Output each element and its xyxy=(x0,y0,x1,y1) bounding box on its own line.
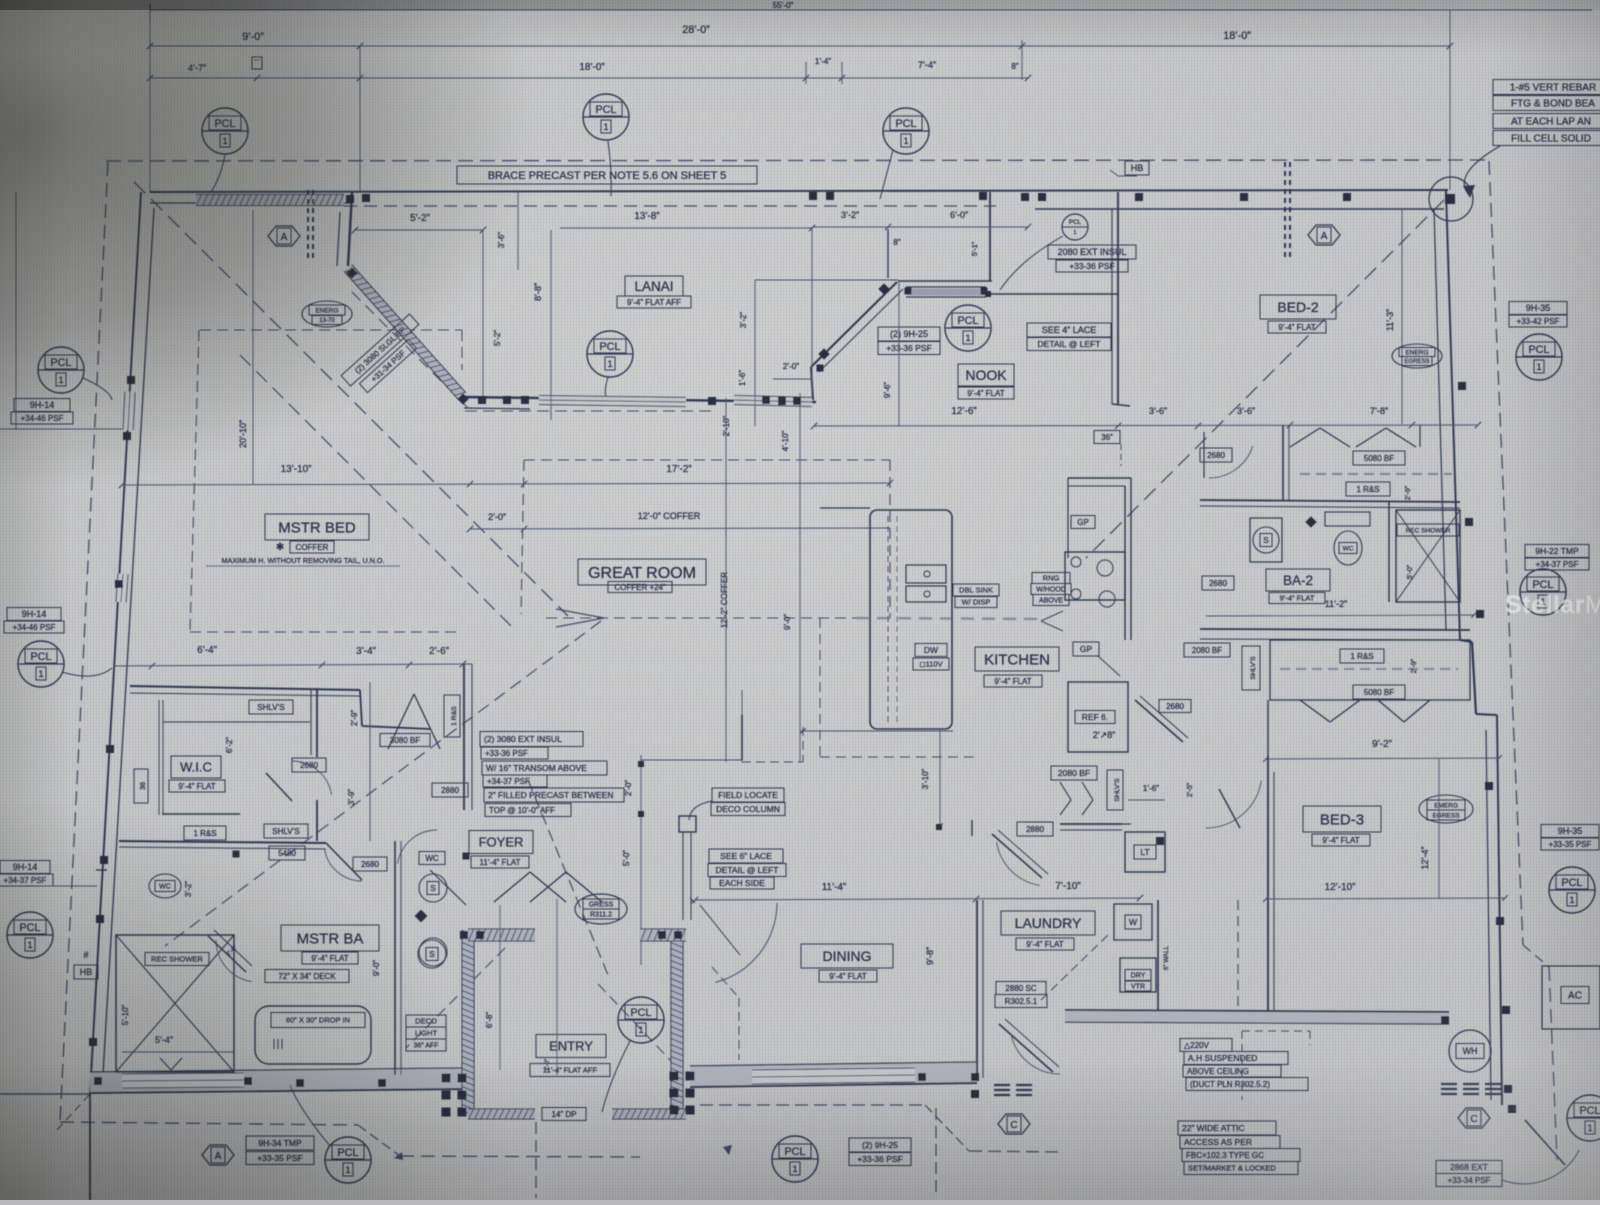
ba2 wall between xyxy=(1388,502,1390,602)
nook wall to top xyxy=(989,192,991,281)
lanai wall vertical stub xyxy=(348,192,352,266)
RNG HOOD label xyxy=(1032,573,1070,584)
mstr ba left walls xyxy=(96,869,107,871)
washer dryer xyxy=(1114,904,1152,940)
bed3 door xyxy=(1206,781,1261,828)
SHLVS label wic top xyxy=(249,700,293,714)
2680 label ba2 xyxy=(1200,448,1232,462)
9H-35 note right xyxy=(1509,302,1567,315)
wic top wall xyxy=(130,686,360,690)
wic 36 rot box xyxy=(134,769,148,803)
rec shower mstr xyxy=(116,935,234,1072)
shower chevron drain xyxy=(160,1058,171,1070)
2080 BF label hall xyxy=(1184,643,1230,657)
column squares left wall xyxy=(127,376,135,384)
wc compartment wall xyxy=(394,841,396,1075)
left dim 20-10 xyxy=(0,428,122,430)
PCL balloon right lower partial xyxy=(1549,867,1595,913)
foyer entry chevrons xyxy=(494,872,530,902)
SHLVS rotated pantry xyxy=(1107,770,1123,810)
wic right wall and door xyxy=(362,726,430,729)
2080 BF label pantry xyxy=(1051,766,1097,780)
PCL balloon left1 xyxy=(38,347,84,393)
misc squares center xyxy=(233,851,240,858)
nook dim verticals xyxy=(754,280,756,426)
kitchen soffit dashed xyxy=(819,618,821,757)
exterior wall right inner lower xyxy=(1486,730,1491,1100)
BA-2 label xyxy=(1266,569,1330,591)
PCL balloon right mid xyxy=(1520,569,1566,615)
closet rod dashed bed3 xyxy=(1280,668,1458,670)
column squares top wall xyxy=(346,195,354,203)
bed2 ba2 dim line xyxy=(1206,424,1478,426)
closet 3080 chevrons xyxy=(388,694,414,749)
nook lintel thick xyxy=(906,289,986,296)
bed2 rot dim 11-3 xyxy=(1401,210,1403,424)
hip dashed diagonal parallel xyxy=(240,355,515,630)
dimension line 28ft and 18ft xyxy=(150,45,1450,47)
dashed under lanai wall xyxy=(465,410,712,412)
entry porch top wall left xyxy=(468,929,535,941)
BED-2 label xyxy=(1260,295,1336,319)
ba2 toilet xyxy=(1250,518,1282,562)
island dashed overhang xyxy=(887,516,889,722)
column squares lanai wall xyxy=(478,396,486,404)
deco column entry xyxy=(679,816,696,832)
exterior wall right upper xyxy=(1446,191,1460,640)
entry column dim xyxy=(640,755,642,965)
dining laundry wall xyxy=(976,900,978,1078)
DINING label xyxy=(801,944,893,968)
bed3 dashed vert xyxy=(1237,900,1239,1008)
AC pad xyxy=(1542,966,1600,1029)
pantry chevron shelves xyxy=(1060,782,1071,800)
roof overhang dashed bottom right xyxy=(700,1104,925,1106)
nook beam top xyxy=(898,280,992,282)
kitchen cooktop xyxy=(1065,552,1125,600)
closet rod dashed ba2 xyxy=(1300,473,1452,475)
PCL balloon bottom-left xyxy=(325,1137,371,1183)
dim extension verticals top xyxy=(149,10,151,192)
ba2 vanity sink xyxy=(1325,512,1370,526)
bed3 closet bifolds xyxy=(1300,700,1330,722)
great room coffer dashed box xyxy=(524,459,890,461)
nook 8in dim xyxy=(887,229,889,278)
roof overhang dashed upper second xyxy=(344,205,996,207)
2868 EXT note xyxy=(1436,1161,1502,1174)
ENERG oval right wall xyxy=(1392,344,1442,368)
valley dashed foyer long xyxy=(165,621,601,946)
ba2 bottom wall xyxy=(1200,629,1470,630)
DBL SINK label xyxy=(953,584,999,596)
overhang corner diag bottom-left xyxy=(57,1095,89,1130)
MSTR BED label xyxy=(265,514,369,540)
exterior wall bottom band right xyxy=(690,1062,977,1087)
dim 13-10 17-2 xyxy=(122,483,890,485)
vert dim x812 xyxy=(811,228,813,395)
hip dashed diagonal from NE corner xyxy=(1086,200,1444,558)
PCL balloon left2 xyxy=(18,641,64,687)
GREAT ROOM label xyxy=(578,559,706,585)
entry 6-8 dim xyxy=(499,905,501,1070)
PCL balloon entry xyxy=(618,997,664,1043)
patio door arc xyxy=(1501,1150,1579,1184)
entry porch bottom wall xyxy=(468,1109,535,1119)
9H-35 note right lower xyxy=(1541,825,1599,838)
LANAI label xyxy=(625,276,683,296)
hex A top-right xyxy=(1308,225,1340,245)
kitchen island sink basins xyxy=(906,565,946,583)
column squares right wall xyxy=(1458,382,1466,390)
laundry door leaf xyxy=(999,1024,1053,1072)
porch hip dashed left xyxy=(406,948,505,1048)
exterior wall left inner face xyxy=(103,208,154,1074)
2880 SC note xyxy=(996,982,1046,995)
ENTRY label xyxy=(536,1035,606,1058)
vignette edges xyxy=(0,0,70,1200)
S switch circle entry xyxy=(418,940,446,968)
laundry bottom wall band xyxy=(1065,1010,1449,1024)
nook angled wall xyxy=(811,282,897,367)
WIC label xyxy=(171,756,221,778)
dining hall wall xyxy=(741,715,743,760)
hall wall stubs xyxy=(971,820,973,836)
wc fixtures xyxy=(419,852,445,865)
2680 label mstr ba door xyxy=(353,857,387,871)
hall wall vertical xyxy=(463,664,465,810)
GRESS oval xyxy=(575,894,627,924)
NOOK label xyxy=(958,364,1014,386)
nook 2-0 dim xyxy=(773,378,812,380)
lanai dim 13-8 line xyxy=(560,227,812,229)
nook dim 12-6 xyxy=(814,425,1478,426)
WH circle xyxy=(1449,1030,1491,1072)
small box symbol on dim xyxy=(252,57,262,69)
exterior wall top xyxy=(150,190,1448,192)
ba2 mid wall xyxy=(1200,500,1460,502)
break marks center xyxy=(994,1084,1010,1086)
kitchen GP box1 xyxy=(1071,516,1095,529)
dim 2-0 12-0 coffer xyxy=(470,528,890,529)
SEE 6 LACE note xyxy=(709,849,783,863)
wic bottom wall xyxy=(162,813,240,815)
bed3 closet box xyxy=(1270,640,1470,700)
lanai slider 2 xyxy=(734,400,812,402)
kitchen angled door xyxy=(1135,700,1183,742)
break marks right xyxy=(1441,1083,1457,1085)
2680 wic door label xyxy=(292,758,326,772)
lanai angled slider label rotated xyxy=(341,314,419,386)
exterior wall right jog xyxy=(1460,640,1472,642)
wc oval left xyxy=(149,874,181,898)
great room vert dims xyxy=(725,398,727,762)
MSTR BA label xyxy=(281,925,379,951)
column squares bottom wall xyxy=(94,1077,102,1085)
5080 BF label bed3 xyxy=(1353,685,1405,699)
walkway dashed edges xyxy=(535,1122,537,1198)
PCL balloon top-right xyxy=(883,108,929,154)
ba2 closet walls xyxy=(1282,425,1284,500)
beam line lanai xyxy=(755,279,898,281)
HB label top xyxy=(1125,161,1149,175)
hex A entry xyxy=(202,1145,234,1165)
arrow marks on bottom dashed xyxy=(394,1152,403,1160)
exterior wall right inner upper xyxy=(1434,209,1446,630)
wic shelves line xyxy=(158,700,160,815)
9-2 dim xyxy=(1266,758,1499,759)
hex C right xyxy=(1458,1108,1490,1128)
corner detail circle xyxy=(1429,177,1473,221)
PCL balloon bottom center xyxy=(772,1136,818,1182)
bed2 left wall xyxy=(1117,192,1119,404)
entry porch right wall hatched xyxy=(671,930,683,1116)
2680 door label kitchen xyxy=(1159,700,1191,713)
porch column squares left xyxy=(442,1074,451,1083)
hex A top-left xyxy=(268,226,300,246)
kitchen pantry walls xyxy=(1068,477,1131,479)
exterior wall left slanted xyxy=(90,192,141,1093)
mstr bed coffer dashed box xyxy=(200,329,462,331)
dim line y730 xyxy=(800,730,953,732)
corner column square NE xyxy=(1445,194,1455,204)
exterior wall right lower xyxy=(1497,715,1502,1105)
FIELD LOCATE note xyxy=(712,788,784,802)
lanai slider 3-3080 xyxy=(539,400,686,402)
porch corner squares xyxy=(460,931,468,939)
hall door arcs xyxy=(398,830,438,864)
entry 1-0 dims xyxy=(556,899,558,1075)
roof overhang dashed bottom left xyxy=(60,1122,358,1125)
ba2 closet bifolds xyxy=(1290,428,1320,447)
dining window bottom xyxy=(752,1075,915,1077)
14 DP label xyxy=(542,1108,586,1121)
KITCHEN label xyxy=(975,647,1059,671)
diamond squares angled walls xyxy=(346,267,357,278)
coffer chevron right end xyxy=(1041,611,1063,621)
2680 label ba2 door2 xyxy=(1202,576,1234,590)
BRACE PRECAST note xyxy=(457,166,757,184)
shower door diag xyxy=(208,936,246,972)
2080 EXT INSUL note xyxy=(1048,245,1136,259)
coffer arrow chevron xyxy=(556,609,604,618)
9H-34 note bottom xyxy=(246,1136,314,1150)
kitchen dim 3-10 vertical xyxy=(939,730,941,830)
PCL balloon nook xyxy=(945,305,991,351)
kitchen island xyxy=(870,510,952,729)
fridge xyxy=(1068,682,1128,752)
dim 20-10 vertical xyxy=(252,210,254,485)
LT box xyxy=(1125,832,1165,872)
PCL balloon 1 top-left xyxy=(202,108,248,154)
PCL balloon lanai xyxy=(587,331,633,377)
dim 1-6 kitchen xyxy=(1128,799,1165,801)
2880 label foyer xyxy=(432,783,468,797)
EMERG oval bed3 xyxy=(1419,795,1473,823)
mstr bed window left wall xyxy=(128,392,130,430)
DECO LIGHT note xyxy=(406,1015,446,1027)
porch valley dashed to dining xyxy=(712,967,739,998)
transom notes stack xyxy=(480,732,583,747)
dim 11-4 7-10 xyxy=(695,898,1140,900)
lanai angled slider wall xyxy=(348,268,462,396)
PCL small circle kitchen wall xyxy=(1062,214,1088,240)
ba2 rec shower xyxy=(1396,510,1460,602)
9H-14 note left3 xyxy=(0,861,50,874)
AH suspended note xyxy=(1180,1039,1232,1052)
1 RS label ba2 xyxy=(1346,482,1390,496)
roof overhang dashed top xyxy=(106,160,1489,161)
hip dashed diagonal from NW corner xyxy=(134,182,568,616)
9H-25 note nook xyxy=(878,327,940,341)
exterior wall top inner face right xyxy=(1035,208,1444,210)
2880 door label xyxy=(1017,822,1053,836)
precast joint dotted column B xyxy=(1284,162,1286,167)
dimension line 4-7 18-0 7-4 xyxy=(150,77,1028,79)
FOYER label xyxy=(469,831,533,854)
9H-22 note right xyxy=(1525,545,1589,558)
laundry right wall xyxy=(1157,900,1159,1010)
PCL balloon right upper xyxy=(1516,334,1562,380)
entry porch top wall right xyxy=(640,929,686,941)
ah dashed outline xyxy=(1242,1030,1310,1032)
exterior wall bottom band left xyxy=(90,1068,462,1093)
DW label xyxy=(915,644,947,657)
SHLVS rot bed3 xyxy=(1242,646,1260,690)
ba2 door arc xyxy=(1209,446,1253,478)
hall angled door xyxy=(992,834,1042,878)
bed2 dashed door gap xyxy=(1120,444,1122,466)
laundry top wall xyxy=(1060,823,1122,825)
9H-14 note left1 xyxy=(14,399,70,412)
second window left wall xyxy=(121,574,123,602)
PCL balloon bottom right partial xyxy=(1567,1095,1600,1141)
tub xyxy=(255,1006,371,1064)
porch column squares right xyxy=(670,1072,679,1081)
laundry dashed door xyxy=(1041,935,1108,1000)
11-2 dim xyxy=(1206,615,1474,616)
valley dashed foyer steep xyxy=(528,780,608,975)
attic access note xyxy=(1178,1121,1276,1135)
hex C bottom center xyxy=(998,1114,1030,1134)
9H-14 note left2 xyxy=(7,608,61,621)
5480 label xyxy=(269,846,305,860)
lanai dim 5-2 xyxy=(355,229,483,231)
kitchen counter edge top xyxy=(820,507,870,509)
lanai bottom wall xyxy=(464,397,816,402)
wic right wall xyxy=(316,688,318,757)
1 RS label bed3 xyxy=(1340,649,1384,663)
great room dim bottom line xyxy=(641,759,742,761)
roof overhang dashed right slanted xyxy=(1489,161,1523,945)
9H-25 note bottom center xyxy=(849,1138,911,1152)
kitchen GP box2 xyxy=(1073,642,1099,656)
precast lintel hatched top-left xyxy=(196,195,344,206)
nook corner wall vertical xyxy=(811,367,813,400)
dining door arc xyxy=(715,903,777,982)
bed3 left wall xyxy=(1267,700,1269,759)
roof overhang dashed left slanted xyxy=(60,162,108,1122)
1 RS rot label hall xyxy=(444,695,460,737)
corner dim extension left xyxy=(0,1093,90,1095)
mstr ba window bottom xyxy=(122,1080,244,1081)
nook dim 3-2 6-0 xyxy=(812,226,1028,228)
rebar leader curve xyxy=(1464,146,1500,196)
PCL balloon left3 xyxy=(7,912,53,958)
dimension line 55ft top xyxy=(150,9,1592,11)
36 box xyxy=(1094,431,1120,444)
see 4in lace note xyxy=(1027,323,1111,337)
PCL balloon top-center xyxy=(583,94,629,140)
hip dashed short near lanai slider xyxy=(352,292,468,408)
ENERG oval lanai corner xyxy=(302,301,352,327)
5080 BF label ba2 xyxy=(1353,451,1405,465)
SHLVS label wic bottom xyxy=(264,824,308,838)
LAUNDRY label xyxy=(1001,911,1095,935)
mstr ba door diag xyxy=(326,843,362,880)
beam nook to bed2 xyxy=(982,293,1118,295)
porch hip dashed right xyxy=(598,984,672,1062)
vert rebar note xyxy=(1493,80,1600,95)
dim 6-4 3-4 2-6 xyxy=(114,664,472,666)
bed3 dims xyxy=(1438,759,1440,899)
precast joint dotted column A xyxy=(307,190,309,195)
BED-3 label xyxy=(1303,806,1381,832)
lanai dim verticals left xyxy=(482,230,484,397)
entry porch left wall hatched xyxy=(462,930,474,1116)
1 RS label wic xyxy=(184,826,226,840)
